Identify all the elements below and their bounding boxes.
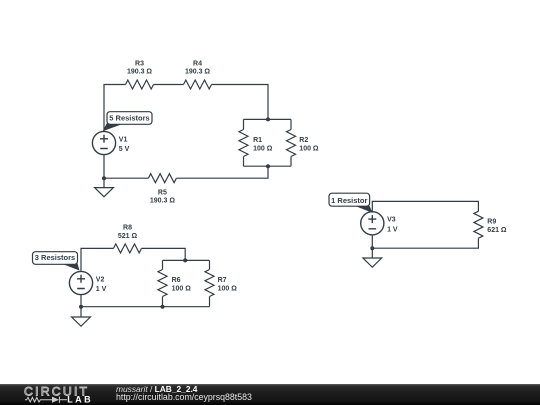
svg-text:1 V: 1 V <box>387 226 398 233</box>
svg-text:621 Ω: 621 Ω <box>487 227 507 234</box>
svg-text:190.3 Ω: 190.3 Ω <box>185 69 210 76</box>
svg-text:100 Ω: 100 Ω <box>172 286 192 293</box>
svg-text:100 Ω: 100 Ω <box>299 146 319 153</box>
svg-text:5 V: 5 V <box>119 146 130 153</box>
svg-text:R3: R3 <box>135 61 144 68</box>
svg-text:1 Resistor: 1 Resistor <box>331 196 367 205</box>
svg-text:R6: R6 <box>172 277 181 284</box>
svg-text:R2: R2 <box>299 137 308 144</box>
svg-text:R8: R8 <box>123 225 132 232</box>
svg-text:R1: R1 <box>253 137 262 144</box>
svg-text:R4: R4 <box>193 61 202 68</box>
svg-text:R7: R7 <box>218 277 227 284</box>
svg-text:190.3 Ω: 190.3 Ω <box>150 198 175 205</box>
svg-text:V2: V2 <box>96 276 105 283</box>
svg-text:190.3 Ω: 190.3 Ω <box>127 69 152 76</box>
svg-text:V1: V1 <box>119 136 128 143</box>
svg-text:R9: R9 <box>487 219 496 226</box>
svg-text:3 Resistors: 3 Resistors <box>35 253 75 262</box>
svg-text:LAB: LAB <box>67 395 93 405</box>
svg-text:V3: V3 <box>387 217 396 224</box>
svg-text:100 Ω: 100 Ω <box>253 146 273 153</box>
svg-text:1 V: 1 V <box>96 286 107 293</box>
svg-text:521 Ω: 521 Ω <box>118 233 138 240</box>
svg-text:R5: R5 <box>158 190 167 197</box>
svg-text:100 Ω: 100 Ω <box>218 286 238 293</box>
svg-text:5 Resistors: 5 Resistors <box>109 114 149 123</box>
